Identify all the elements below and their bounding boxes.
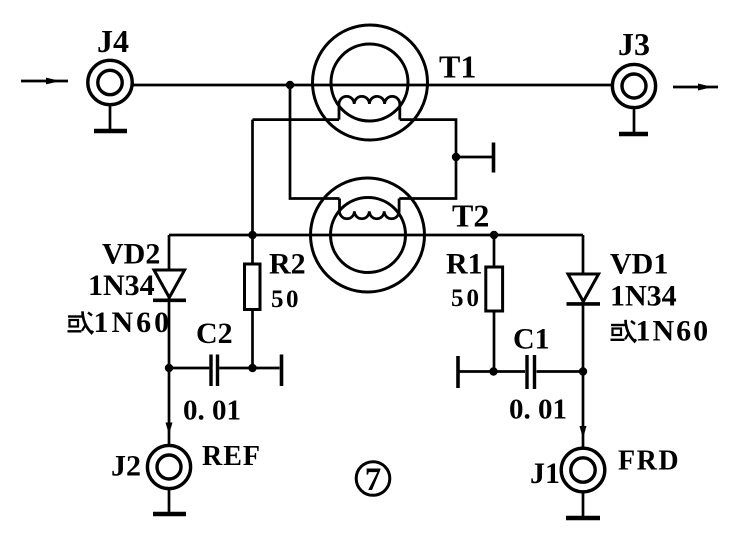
svg-text:J1: J1 xyxy=(530,457,560,490)
svg-text:REF: REF xyxy=(202,441,261,472)
svg-text:T1: T1 xyxy=(439,49,476,85)
svg-text:VD2: VD2 xyxy=(102,238,160,271)
svg-text:0. 01: 0. 01 xyxy=(509,394,567,426)
svg-text:1N60: 1N60 xyxy=(636,315,711,348)
svg-text:VD1: VD1 xyxy=(610,248,668,281)
svg-text:FRD: FRD xyxy=(618,446,680,477)
svg-text:0. 01: 0. 01 xyxy=(183,395,241,427)
svg-text:R1: R1 xyxy=(446,248,483,281)
svg-text:1N60: 1N60 xyxy=(94,306,173,339)
svg-text:1N34: 1N34 xyxy=(610,280,677,313)
svg-text:C1: C1 xyxy=(513,323,550,356)
svg-text:J3: J3 xyxy=(618,26,650,62)
svg-text:C2: C2 xyxy=(196,317,233,350)
svg-text:J2: J2 xyxy=(111,450,141,483)
svg-text:7: 7 xyxy=(365,462,382,498)
svg-text:50: 50 xyxy=(451,285,482,312)
svg-text:J4: J4 xyxy=(97,23,129,59)
svg-text:50: 50 xyxy=(271,286,301,313)
svg-text:R2: R2 xyxy=(269,248,306,281)
svg-text:1N34: 1N34 xyxy=(88,269,155,302)
svg-text:T2: T2 xyxy=(452,198,489,234)
